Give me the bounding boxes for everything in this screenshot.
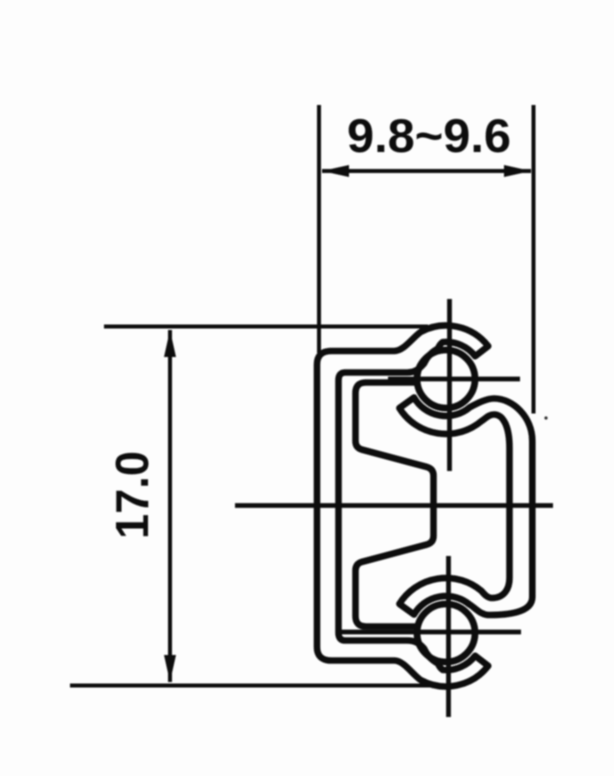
ball bearing bottom: [417, 604, 475, 662]
extension line top (height dim): [104, 325, 428, 329]
drawer rail web (Z profile, single line): [356, 383, 434, 627]
dimension line 9.8~9.6 with arrows: [322, 169, 531, 173]
ball bearing top: [417, 350, 475, 408]
centerline vertical bottom ball: [446, 556, 451, 717]
centerline horizontal top ball: [388, 377, 520, 382]
svg-text:17.0: 17.0: [106, 451, 158, 539]
centerline vertical top ball: [447, 299, 452, 471]
dimension line 17.0 with arrows: [168, 330, 172, 682]
extension line left (width dim): [317, 105, 321, 353]
extension line right (width dim): [532, 105, 536, 414]
outer rail (cabinet member) sheet outline: [317, 326, 488, 687]
intermediate rail (ball raceway member) sheet outline: [399, 398, 532, 616]
stray scan dot: [544, 416, 547, 419]
extension line bottom (height dim): [70, 684, 434, 688]
svg-text:9.8~9.6: 9.8~9.6: [347, 109, 511, 162]
centerline horizontal bottom ball: [336, 630, 521, 635]
centerline horizontal middle: [235, 503, 553, 508]
